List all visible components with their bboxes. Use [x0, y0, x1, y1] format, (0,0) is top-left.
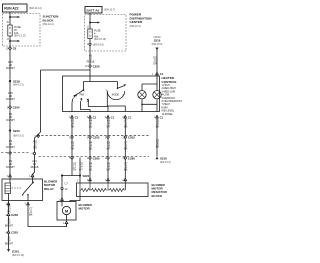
- svg-text:(8W-15-2): (8W-15-2): [13, 134, 24, 137]
- blower motor relay box: [2, 179, 43, 201]
- svg-text:BK: BK: [124, 146, 128, 150]
- svg-text:GY: GY: [79, 167, 83, 171]
- connector C6 pin 10: [6, 47, 17, 51]
- splice S240: [9, 129, 11, 131]
- heater control mode list: [162, 84, 183, 116]
- svg-text:14: 14: [6, 38, 9, 41]
- resistor element 1: [80, 183, 90, 192]
- wire F20 to C204: [9, 81, 11, 106]
- switch FAN contact 1: [73, 96, 75, 99]
- relay coil: [5, 183, 11, 194]
- node BATT A0: [85, 7, 115, 14]
- fuse F5 junction block: [8, 25, 12, 36]
- svg-text:C1: C1: [160, 115, 164, 119]
- lamp illumination left: [138, 91, 146, 99]
- lamp illumination right: [153, 91, 161, 99]
- switch FAN wiper: [83, 89, 85, 91]
- power distribution center dashed box: [85, 15, 127, 52]
- node RUN A22: [3, 4, 42, 12]
- svg-text:C250: C250: [93, 64, 100, 68]
- junction block dashed box: [3, 14, 41, 47]
- svg-text:TN: TN: [71, 146, 75, 150]
- wire F9 to connector row: [9, 131, 11, 153]
- wire Z1 lower: [8, 233, 10, 249]
- blower motor resistor block label: [152, 183, 168, 198]
- wire arrow branch right lower: [10, 40, 18, 42]
- svg-text:C1: C1: [93, 115, 97, 119]
- svg-text:(8W-10-7): (8W-10-7): [104, 9, 115, 12]
- svg-text:FAN: FAN: [80, 93, 85, 96]
- svg-text:C280: C280: [128, 156, 135, 160]
- switch FAN contact 2: [80, 99, 82, 102]
- heater control label: [162, 76, 177, 84]
- svg-text:12: 12: [65, 187, 68, 191]
- svg-text:RD/LB: RD/LB: [31, 165, 39, 169]
- svg-text:BLOCK: BLOCK: [43, 18, 55, 22]
- svg-text:2: 2: [59, 198, 61, 201]
- svg-text:C280: C280: [93, 156, 100, 160]
- wire bar to motor: [61, 176, 63, 202]
- svg-text:S220: S220: [83, 174, 90, 178]
- wire resistor feed from bar: [79, 158, 81, 184]
- svg-text:WT: WT: [106, 146, 110, 150]
- svg-text:MOTOR: MOTOR: [79, 207, 91, 211]
- splice arrow S220 lamp ground: [156, 157, 159, 160]
- switch MODE wiper: [117, 82, 119, 89]
- svg-text:BK: BK: [29, 212, 33, 216]
- wire W6 blower switch high: [124, 118, 126, 183]
- svg-text:1: 1: [29, 175, 31, 178]
- svg-text:(8W-10-16): (8W-10-16): [94, 38, 106, 41]
- blower motor resistor block box: [77, 183, 149, 197]
- svg-text:RELAY: RELAY: [44, 187, 54, 191]
- svg-text:(8W-15-6): (8W-15-6): [152, 43, 163, 46]
- svg-text:12: 12: [86, 26, 89, 29]
- wire motor to relay loop label: [66, 224, 68, 227]
- connector C204 pin 5: [7, 106, 20, 110]
- node S216 reference: [152, 36, 163, 46]
- power distribution center label: [130, 13, 153, 28]
- svg-text:(8W-15-10): (8W-15-10): [12, 254, 24, 257]
- svg-text:C1: C1: [128, 115, 132, 119]
- fuse F4 PDC: [88, 29, 92, 39]
- svg-text:C202: C202: [128, 135, 135, 139]
- svg-text:1: 1: [152, 73, 154, 76]
- svg-text:30: 30: [6, 21, 9, 24]
- blower motor label: [79, 203, 93, 211]
- wire relay output to blower motor: [28, 205, 67, 227]
- wire MODE left contact down: [107, 91, 125, 112]
- wire from S216 with arrow: [155, 48, 158, 51]
- wire resistor output to motor: [70, 190, 80, 202]
- heater control box: [63, 76, 160, 112]
- switch FAN contact 3: [87, 100, 89, 103]
- svg-text:C6: C6: [13, 47, 17, 51]
- svg-text:RD/LB: RD/LB: [87, 59, 95, 63]
- svg-text:DG/WT: DG/WT: [6, 165, 15, 169]
- wire A22 relay feed: [33, 70, 41, 175]
- svg-text:BK/WT: BK/WT: [5, 224, 14, 228]
- svg-text:G301: G301: [12, 250, 19, 254]
- svg-text:DG/WT: DG/WT: [6, 118, 15, 122]
- svg-text:(8W-15-6): (8W-15-6): [160, 161, 171, 164]
- wire W4 blower switch med: [89, 118, 91, 183]
- node junction dot PDC: [89, 22, 91, 24]
- wire label A0: [87, 53, 95, 63]
- svg-text:DG/WT: DG/WT: [6, 97, 15, 101]
- switch MODE arc: [107, 91, 124, 100]
- svg-text:(8W-12-2): (8W-12-2): [13, 84, 24, 87]
- wire PDC feed into heater control: [84, 70, 118, 90]
- svg-text:(8W-15-5): (8W-15-5): [93, 43, 104, 46]
- wire F20 to S240: [9, 109, 11, 130]
- splice S218: [9, 80, 11, 82]
- svg-text:C206: C206: [11, 213, 18, 217]
- wire W7 lamp ground: [156, 118, 158, 157]
- svg-text:C204: C204: [13, 106, 20, 110]
- svg-text:C7: C7: [65, 182, 69, 186]
- wire BATT A0 to fuse: [89, 13, 91, 29]
- blower motor relay label: [44, 180, 58, 191]
- wire feed horizontal to relay branch: [41, 69, 91, 71]
- svg-text:C1: C1: [75, 115, 79, 119]
- svg-text:S240: S240: [13, 129, 20, 133]
- svg-text:TN: TN: [71, 125, 75, 129]
- wire W5 blower switch med-hi: [107, 118, 109, 183]
- svg-text:M: M: [65, 208, 69, 213]
- wire lamp feed bus from C1 entry: [142, 76, 157, 90]
- boundary dashed line row2: [1, 153, 149, 157]
- svg-text:1: 1: [63, 222, 65, 225]
- svg-text:(8W-10-2): (8W-10-2): [130, 25, 141, 28]
- junction block label: [43, 15, 60, 27]
- svg-text:S218: S218: [160, 156, 167, 160]
- wire F9 to relay: [9, 154, 11, 174]
- wire lamps to ground exit: [142, 99, 157, 112]
- wire RUN A22 to fuse: [9, 12, 11, 25]
- svg-text:CENTER: CENTER: [130, 20, 143, 24]
- resistor element 2: [90, 183, 108, 192]
- wire W6 drop inside resistor block: [124, 183, 126, 190]
- ground G301: [7, 249, 10, 252]
- relay link dashed: [12, 187, 22, 189]
- svg-text:(8W-12-2): (8W-12-2): [43, 23, 54, 26]
- boundary dashed line row1: [37, 135, 149, 137]
- resistor element 3: [108, 183, 125, 192]
- splice bar S220: [61, 174, 63, 176]
- svg-text:BK: BK: [124, 125, 128, 129]
- wire fuse to PDC exit: [89, 39, 91, 71]
- svg-text:DG/WT: DG/WT: [6, 66, 15, 70]
- svg-text:LG: LG: [89, 167, 92, 171]
- svg-text:C302: C302: [11, 231, 18, 235]
- svg-text:2: 2: [77, 179, 79, 182]
- svg-text:WT: WT: [106, 125, 110, 129]
- node junction dot lower: [9, 40, 11, 42]
- motor symbol: [62, 206, 70, 214]
- svg-text:18: 18: [85, 65, 88, 68]
- wire arrow branch right PDC: [90, 22, 98, 24]
- svg-text:C202: C202: [93, 135, 100, 139]
- wire Z1 mid: [8, 216, 10, 231]
- wire F20 upper: [9, 53, 11, 80]
- svg-text:RD: RD: [33, 145, 37, 149]
- svg-text:BLOCK: BLOCK: [152, 194, 163, 198]
- svg-text:DG/WT: DG/WT: [6, 145, 15, 149]
- svg-text:4: 4: [7, 175, 9, 178]
- wire fuse to C6: [9, 36, 11, 53]
- svg-text:LG: LG: [89, 125, 92, 129]
- relay armature: [32, 182, 34, 184]
- svg-text:BK: BK: [156, 144, 160, 148]
- svg-text:RUN A22: RUN A22: [4, 7, 18, 11]
- svg-text:(8W-10-14): (8W-10-14): [29, 7, 42, 10]
- wire arrow branch right: [10, 16, 18, 18]
- svg-text:C1: C1: [111, 115, 115, 119]
- svg-text:WT: WT: [106, 167, 110, 171]
- svg-text:(8W-12-17): (8W-12-17): [14, 35, 26, 38]
- svg-text:LG: LG: [89, 146, 92, 150]
- svg-text:BATT A0: BATT A0: [87, 8, 100, 12]
- svg-text:TN: TN: [73, 167, 77, 171]
- svg-text:BK: BK: [156, 125, 160, 129]
- svg-text:BK/WT: BK/WT: [5, 242, 14, 246]
- blower motor box: [57, 202, 76, 221]
- wire W3 blower switch low: [71, 118, 73, 176]
- svg-text:BK: BK: [124, 167, 128, 171]
- svg-text:OR: OR: [153, 61, 157, 65]
- svg-text:MODE: MODE: [112, 93, 120, 96]
- node junction dot top: [9, 16, 11, 18]
